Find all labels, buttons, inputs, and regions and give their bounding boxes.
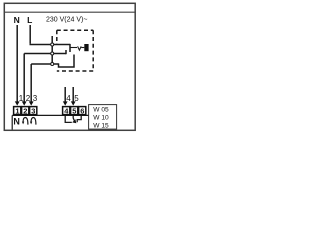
svg-text:3: 3 (31, 107, 35, 116)
arrow into terminal 3 (29, 101, 34, 105)
bus vertical (51, 36, 53, 64)
wire terminal 4 vertical (64, 87, 66, 102)
wire node B horizontal (terminal 2 line) (24, 53, 66, 55)
dashed thermostat box (57, 30, 93, 71)
arrow into terminal 1 (15, 101, 20, 105)
changeover arrow from terminal 5 (73, 116, 74, 121)
terminal 1 box (14, 107, 21, 115)
wire terminal 5 vertical (72, 87, 74, 102)
switched phase symbol under terminal 2 (23, 118, 28, 125)
terminal 2 box (22, 107, 29, 115)
svg-text:W 10: W 10 (93, 115, 109, 122)
terminal 5 box (71, 107, 78, 115)
jumper from terminal 6 (77, 116, 81, 122)
wire terminal 3 vertical (30, 64, 32, 102)
header divider line (4, 11, 135, 13)
terminal 4 box (63, 107, 70, 115)
svg-text:N: N (14, 15, 20, 25)
svg-text:2: 2 (23, 107, 27, 116)
svg-text:W 05: W 05 (93, 107, 109, 114)
arrow into terminal 2 (22, 101, 27, 105)
svg-text:W 15: W 15 (93, 122, 109, 129)
arrow into terminal 4 (63, 101, 68, 105)
svg-text:L: L (27, 15, 32, 25)
svg-text:N: N (13, 117, 20, 127)
wire node C horizontal (terminal 3 line) (31, 63, 58, 65)
switch blade (69, 44, 71, 52)
switched phase symbol under terminal 3 (31, 118, 36, 125)
svg-text:6: 6 (80, 107, 84, 116)
wire N vertical (16, 25, 18, 102)
wire terminal 2 vertical (23, 54, 25, 103)
model box W 05 / W 10 / W 15 (89, 105, 117, 130)
svg-text:230 V(24 V)~: 230 V(24 V)~ (46, 17, 87, 24)
junction node C (51, 63, 54, 66)
sensor bulb (filled square) (84, 44, 88, 51)
svg-text:1: 1 (15, 107, 19, 116)
terminal 3 box (30, 107, 37, 115)
wire L vertical + horizontal to node A (29, 25, 31, 44)
device left edge (11, 115, 13, 129)
junction node A (51, 43, 54, 46)
wire node A horizontal into dashed box (30, 44, 71, 46)
wire U-path to right contact (59, 55, 75, 68)
svg-text:5: 5 (72, 107, 76, 116)
sensor capillary line (70, 47, 77, 49)
outer frame (4, 3, 135, 130)
terminal 6 box (79, 107, 86, 115)
capillary v-mark (78, 46, 82, 50)
fixed contact hook (65, 50, 67, 54)
arrow into terminal 5 (71, 101, 76, 105)
device top line (12, 114, 88, 116)
junction node B (51, 52, 54, 55)
jumper from terminal 4 (65, 116, 72, 123)
